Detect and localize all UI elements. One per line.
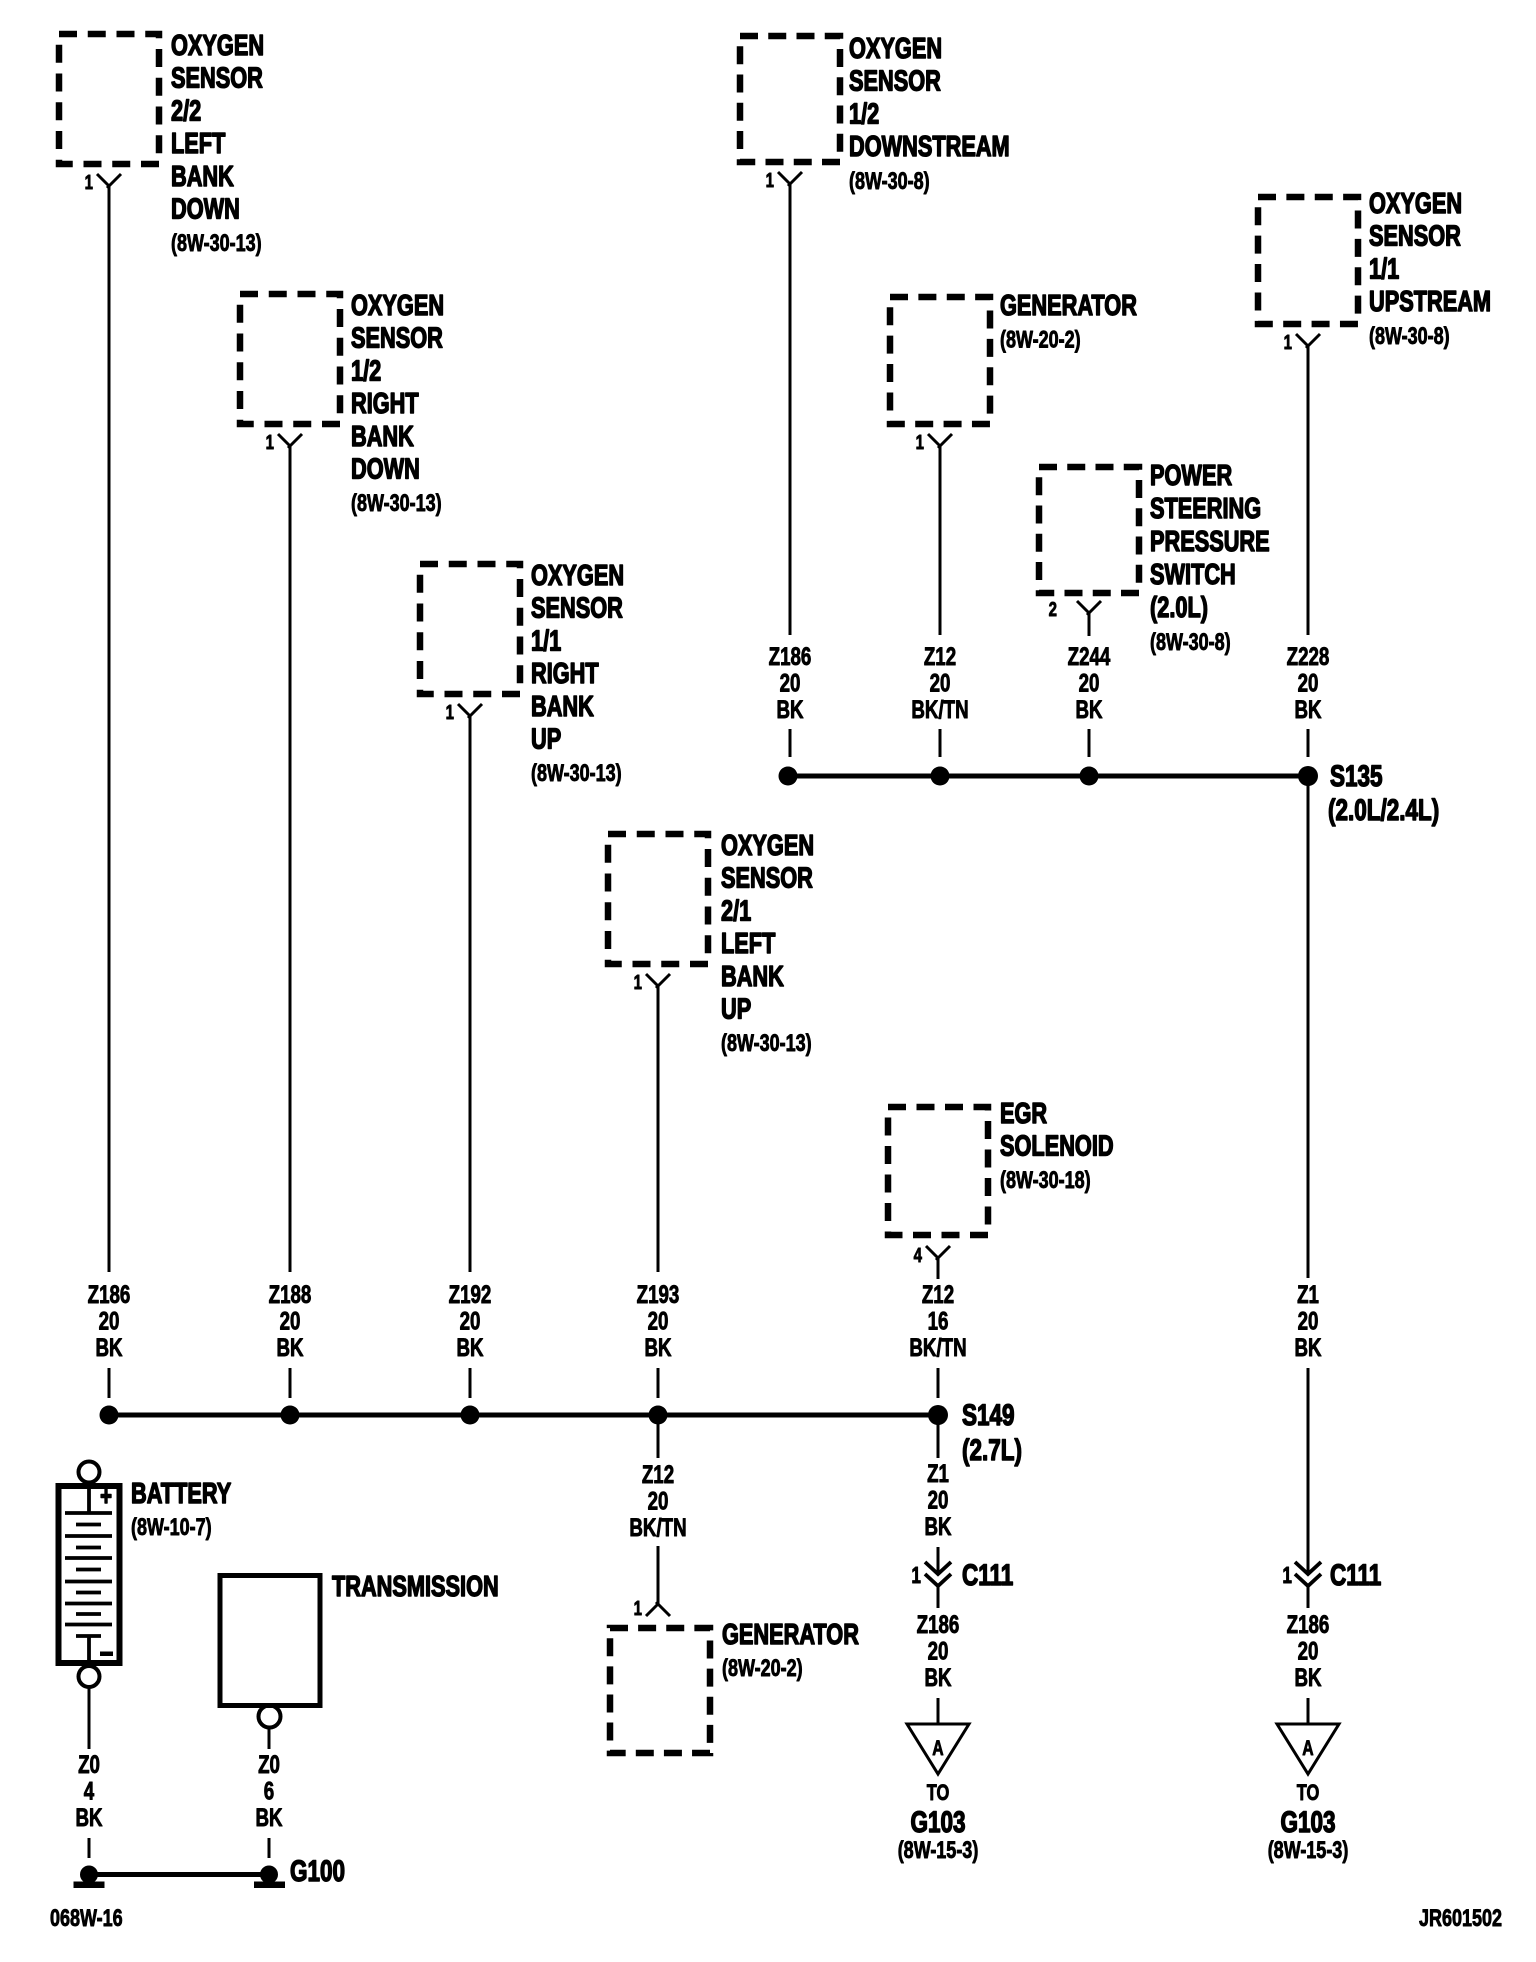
svg-text:(8W-20-2): (8W-20-2) [722, 1656, 803, 1682]
svg-text:RIGHT: RIGHT [531, 658, 599, 690]
svg-text:BK: BK [1294, 695, 1321, 723]
label: POWER STEERING PRESSURE SWITCH (2.0L) [1150, 460, 1270, 656]
svg-text:SENSOR: SENSOR [171, 63, 263, 95]
svg-text:(2.7L): (2.7L) [962, 1433, 1022, 1467]
svg-text:20: 20 [648, 1307, 669, 1335]
svg-text:Z12: Z12 [642, 1460, 674, 1488]
in-line connector C111 (right) [1295, 1562, 1321, 1608]
off-page connector A to G103 (right) [1277, 1724, 1339, 1774]
connector box: EGR SOLENOID [888, 1107, 988, 1235]
svg-text:DOWN: DOWN [351, 454, 420, 486]
svg-text:BK/TN: BK/TN [911, 695, 968, 723]
svg-text:BANK: BANK [351, 421, 414, 453]
label: GENERATOR (top) [1000, 290, 1137, 353]
svg-text:BK: BK [924, 1512, 951, 1540]
svg-text:C111: C111 [1330, 1558, 1381, 1592]
wire label Z0 4 BK (battery ground wire) [75, 1750, 102, 1831]
wire Z1 to C111 (lower segment, right column) [1307, 1368, 1310, 1574]
svg-text:(8W-30-8): (8W-30-8) [1369, 323, 1450, 349]
svg-text:OXYGEN: OXYGEN [721, 830, 814, 862]
junction dot at Z192/S149 [461, 1406, 480, 1425]
wire label Z193 20 BK (left col 4) [637, 1280, 680, 1361]
wire label Z244 20 BK (power steering col) [1068, 642, 1111, 723]
svg-text:TO: TO [927, 1781, 950, 1806]
label: BATTERY [131, 1478, 231, 1541]
svg-text:Z12: Z12 [924, 642, 956, 670]
wire Z186 to A triangle (right) [1307, 1698, 1310, 1724]
svg-text:GENERATOR: GENERATOR [722, 1619, 859, 1651]
svg-text:(8W-30-8): (8W-30-8) [849, 168, 930, 194]
svg-text:BK: BK [95, 1333, 122, 1361]
wire Z192 from O2 1/1 right bank pin 1 (upper segment) [469, 716, 472, 1272]
wire label Z12 20 BK/TN (to bottom generator) [629, 1460, 686, 1541]
svg-text:BK/TN: BK/TN [909, 1333, 966, 1361]
off-page connector A to G103 (left) [907, 1724, 969, 1774]
wire label Z0 6 BK (transmission ground wire) [255, 1750, 282, 1831]
wire Z186 from O2 2/2 pin 1 (upper segment) [108, 186, 111, 1272]
svg-text:Z0: Z0 [258, 1750, 280, 1778]
ground G100 terminal (battery side) [74, 1866, 105, 1889]
wire Z188 from O2 1/2 right bank pin 1 (upper segment) [289, 446, 292, 1272]
svg-text:SENSOR: SENSOR [1369, 221, 1461, 253]
svg-text:LEFT: LEFT [721, 928, 776, 960]
wire Z244 to S135 (stub) [1088, 729, 1091, 757]
svg-text:OXYGEN: OXYGEN [849, 33, 942, 65]
splice S135 dot [1298, 766, 1318, 786]
svg-text:(8W-20-2): (8W-20-2) [1000, 327, 1081, 353]
svg-text:(8W-15-3): (8W-15-3) [1268, 1838, 1349, 1864]
svg-text:BANK: BANK [531, 691, 594, 723]
svg-text:20: 20 [1079, 669, 1100, 697]
svg-text:20: 20 [780, 669, 801, 697]
svg-text:Z186: Z186 [88, 1280, 131, 1308]
wire label Z186 20 BK (downstream col) [769, 642, 812, 723]
svg-text:G103: G103 [910, 1805, 965, 1839]
svg-text:(2.0L/2.4L): (2.0L/2.4L) [1328, 793, 1439, 827]
svg-text:BK: BK [1294, 1333, 1321, 1361]
connector box: OXYGEN SENSOR 2/2 LEFT BANK DOWN [59, 34, 159, 164]
wire Z12 from generator top pin 1 [939, 446, 942, 635]
wire Z12 from S149 (stub) [657, 1415, 660, 1458]
svg-text:(8W-30-13): (8W-30-13) [721, 1031, 812, 1057]
wire Z0 from battery negative [88, 1688, 91, 1749]
svg-text:BK: BK [255, 1803, 282, 1831]
svg-text:G100: G100 [290, 1854, 345, 1888]
svg-text:20: 20 [460, 1307, 481, 1335]
svg-text:BK: BK [1294, 1663, 1321, 1691]
wire Z12 to S135 (stub) [939, 729, 942, 757]
svg-text:20: 20 [928, 1486, 949, 1514]
svg-text:BK: BK [776, 695, 803, 723]
wire Z0 from transmission [268, 1729, 271, 1749]
svg-text:PRESSURE: PRESSURE [1150, 526, 1270, 558]
svg-text:Z186: Z186 [769, 642, 812, 670]
wire label Z1 20 BK (below S149) [924, 1459, 951, 1540]
connector box: POWER STEERING PRESSURE SWITCH [1039, 467, 1139, 593]
svg-text:20: 20 [1298, 669, 1319, 697]
svg-text:(8W-30-18): (8W-30-18) [1000, 1168, 1091, 1194]
svg-text:BK: BK [1075, 695, 1102, 723]
label: OXYGEN SENSOR 2/1 LEFT BANK UP [721, 830, 814, 1057]
ground bus wire to G100 [89, 1872, 269, 1877]
transmission box [220, 1576, 320, 1728]
junction dot at Z188/S149 [281, 1406, 300, 1425]
wire Z1 from S135 (upper segment, right column) [1307, 776, 1310, 1278]
wire Z193 to S149 (lower stub) [657, 1368, 660, 1398]
label: EGR SOLENOID [1000, 1098, 1114, 1194]
label: TO G103 (8W-15-3) right [1268, 1781, 1349, 1864]
svg-text:OXYGEN: OXYGEN [1369, 188, 1462, 220]
svg-text:(8W-15-3): (8W-15-3) [898, 1838, 979, 1864]
wire Z186 to S135 (stub) [789, 729, 792, 757]
wire Z1 from S149 (stub) [937, 1415, 940, 1458]
junction dot at Z193/S149 [649, 1406, 668, 1425]
wire label Z188 20 BK (left col 2) [269, 1280, 312, 1361]
svg-text:1: 1 [634, 1597, 642, 1620]
svg-text:1: 1 [85, 171, 93, 194]
svg-text:1/1: 1/1 [531, 626, 561, 658]
svg-text:6: 6 [264, 1777, 274, 1805]
label: OXYGEN SENSOR 1/1 UPSTREAM [1369, 188, 1491, 349]
svg-text:Z0: Z0 [78, 1750, 100, 1778]
pin 4 arrow (EGR solenoid) [926, 1246, 950, 1260]
svg-text:Z1: Z1 [927, 1459, 949, 1487]
svg-text:(8W-30-13): (8W-30-13) [171, 231, 262, 257]
battery (8W-10-7) symbol [59, 1462, 120, 1688]
wire label Z12 16 BK/TN (EGR col) [909, 1280, 966, 1361]
pin 1 arrow (O2 1/2 downstream) [778, 172, 802, 186]
svg-text:OXYGEN: OXYGEN [171, 30, 264, 62]
svg-text:1: 1 [916, 431, 924, 454]
svg-text:(2.0L): (2.0L) [1150, 592, 1208, 624]
svg-text:BATTERY: BATTERY [131, 1478, 231, 1510]
wire Z186 from O2 1/2 downstream pin 1 [789, 184, 792, 635]
svg-text:1/2: 1/2 [849, 99, 879, 131]
svg-text:20: 20 [930, 669, 951, 697]
wire Z12 to S149 (stub) [937, 1368, 940, 1398]
wire Z228 to S135 (stub) [1307, 729, 1310, 757]
svg-text:20: 20 [1298, 1307, 1319, 1335]
svg-text:(8W-30-13): (8W-30-13) [351, 491, 442, 517]
wire Z0 battery to G100 (stub) [88, 1838, 91, 1858]
label: OXYGEN SENSOR 1/2 DOWNSTREAM [849, 33, 1010, 194]
svg-text:Z186: Z186 [1287, 1610, 1330, 1638]
wire Z12 from EGR pin 4 (stub) [937, 1258, 940, 1279]
svg-text:1: 1 [634, 971, 642, 994]
pin 1 arrow (O2 2/1 left bank up) [646, 974, 670, 988]
in-line connector C111 (left) [925, 1562, 951, 1608]
pin 1 arrow (generator bottom) [646, 1602, 670, 1616]
svg-text:TO: TO [1297, 1781, 1320, 1806]
svg-text:BANK: BANK [171, 161, 234, 193]
svg-text:OXYGEN: OXYGEN [351, 290, 444, 322]
pin 1 arrow (O2 1/1 upstream) [1296, 334, 1320, 348]
svg-text:SENSOR: SENSOR [531, 593, 623, 625]
svg-text:Z12: Z12 [922, 1280, 954, 1308]
svg-text:20: 20 [280, 1307, 301, 1335]
svg-text:Z1: Z1 [1297, 1280, 1319, 1308]
wire label Z186 20 BK (left col 1) [88, 1280, 131, 1361]
wire Z12 to generator bottom pin 1 [657, 1546, 660, 1604]
svg-text:GENERATOR: GENERATOR [1000, 290, 1137, 322]
svg-text:1/1: 1/1 [1369, 254, 1399, 286]
svg-text:SENSOR: SENSOR [849, 66, 941, 98]
svg-text:4: 4 [84, 1777, 95, 1805]
wire label Z186 20 BK (right C111 to G103) [1287, 1610, 1330, 1691]
svg-text:(8W-30-13): (8W-30-13) [531, 761, 622, 787]
wire label Z192 20 BK (left col 3) [449, 1280, 492, 1361]
svg-text:DOWNSTREAM: DOWNSTREAM [849, 131, 1010, 163]
wire Z193 from O2 2/1 left bank pin 1 (upper segment) [657, 986, 660, 1272]
svg-text:BANK: BANK [721, 961, 784, 993]
connector box: OXYGEN SENSOR 1/2 DOWNSTREAM [740, 36, 840, 162]
connector box: OXYGEN SENSOR 2/1 LEFT BANK UP [608, 834, 708, 964]
svg-text:20: 20 [928, 1637, 949, 1665]
pin 1 arrow (O2 2/2 left bank down) [97, 174, 121, 188]
splice bus S135 [788, 774, 1308, 779]
splice S149 dot [928, 1405, 948, 1425]
svg-text:S135: S135 [1330, 759, 1383, 793]
svg-text:20: 20 [648, 1487, 669, 1515]
label: GENERATOR (bottom) [722, 1619, 859, 1682]
svg-text:SOLENOID: SOLENOID [1000, 1131, 1114, 1163]
svg-text:EGR: EGR [1000, 1098, 1047, 1130]
svg-text:Z188: Z188 [269, 1280, 312, 1308]
svg-text:(8W-30-8): (8W-30-8) [1150, 630, 1231, 656]
svg-text:16: 16 [928, 1307, 949, 1335]
svg-text:BK: BK [456, 1333, 483, 1361]
svg-text:BK: BK [644, 1333, 671, 1361]
wire Z186 to S149 (lower stub) [108, 1368, 111, 1398]
svg-text:RIGHT: RIGHT [351, 388, 419, 420]
svg-text:S149: S149 [962, 1398, 1015, 1432]
label: splice S135 (2.0L/2.4L) [1328, 759, 1439, 827]
wire Z244 from power steering switch pin 2 [1088, 613, 1091, 636]
svg-text:STEERING: STEERING [1150, 493, 1261, 525]
connector box: GENERATOR (top) [890, 297, 990, 424]
svg-text:OXYGEN: OXYGEN [531, 560, 624, 592]
pin 1 arrow (generator top) [928, 434, 952, 448]
svg-text:SWITCH: SWITCH [1150, 559, 1236, 591]
pin 1 arrow (O2 1/2 right bank down) [278, 434, 302, 448]
svg-text:1: 1 [766, 169, 774, 192]
wire label Z12 20 BK/TN (generator col) [911, 642, 968, 723]
splice bus S149 [109, 1413, 938, 1418]
svg-text:(8W-10-7): (8W-10-7) [131, 1515, 212, 1541]
svg-text:20: 20 [99, 1307, 120, 1335]
svg-text:JR601502: JR601502 [1419, 1906, 1502, 1932]
svg-text:DOWN: DOWN [171, 194, 240, 226]
pin 1 arrow (O2 1/1 right bank up) [458, 704, 482, 718]
svg-text:SENSOR: SENSOR [721, 863, 813, 895]
wire label Z1 20 BK (right column) [1294, 1280, 1321, 1361]
svg-text:POWER: POWER [1150, 460, 1232, 492]
pin 2 arrow (power steering pressure switch) [1077, 601, 1101, 615]
connector box: OXYGEN SENSOR 1/1 UPSTREAM [1258, 197, 1358, 324]
svg-text:Z193: Z193 [637, 1280, 680, 1308]
label: OXYGEN SENSOR 1/1 RIGHT BANK UP [531, 560, 624, 787]
svg-text:1/2: 1/2 [351, 356, 381, 388]
svg-text:1: 1 [911, 1564, 921, 1589]
svg-text:2/1: 2/1 [721, 896, 751, 928]
svg-text:Z244: Z244 [1068, 642, 1111, 670]
svg-text:BK: BK [924, 1663, 951, 1691]
svg-text:2: 2 [1049, 598, 1057, 621]
svg-text:20: 20 [1298, 1637, 1319, 1665]
svg-text:UPSTREAM: UPSTREAM [1369, 286, 1491, 318]
svg-text:4: 4 [914, 1244, 922, 1267]
svg-text:Z186: Z186 [917, 1610, 960, 1638]
junction dot at Z186/S135 [779, 767, 798, 786]
wire Z1 to C111 (left) [937, 1547, 940, 1574]
svg-text:BK: BK [75, 1803, 102, 1831]
wire Z186 to A triangle (left) [937, 1698, 940, 1724]
svg-text:068W-16: 068W-16 [50, 1906, 123, 1932]
junction dot at Z12/S135 [931, 767, 950, 786]
svg-text:1: 1 [266, 431, 274, 454]
svg-text:SENSOR: SENSOR [351, 323, 443, 355]
wire label Z228 20 BK (upstream col) [1287, 642, 1330, 723]
svg-text:2/2: 2/2 [171, 96, 201, 128]
svg-text:A: A [932, 1736, 943, 1760]
label: TO G103 (8W-15-3) left [898, 1781, 979, 1864]
svg-text:1: 1 [446, 701, 454, 724]
svg-text:A: A [1302, 1736, 1313, 1760]
wire Z0 transmission to G100 (stub) [268, 1838, 271, 1858]
wire Z192 to S149 (lower stub) [469, 1368, 472, 1398]
svg-text:1: 1 [1284, 331, 1292, 354]
connector box: GENERATOR (bottom) [610, 1628, 710, 1753]
label: splice S149 (2.7L) [962, 1398, 1022, 1467]
svg-text:TRANSMISSION: TRANSMISSION [332, 1571, 499, 1603]
svg-text:BK/TN: BK/TN [629, 1513, 686, 1541]
svg-text:UP: UP [721, 994, 751, 1026]
connector box: OXYGEN SENSOR 1/1 RIGHT BANK UP [420, 564, 520, 694]
ground G100 terminal (transmission side) [254, 1866, 285, 1889]
svg-text:BK: BK [276, 1333, 303, 1361]
svg-text:C111: C111 [962, 1558, 1013, 1592]
junction dot at Z186/S149 [100, 1406, 119, 1425]
svg-text:Z228: Z228 [1287, 642, 1330, 670]
label: TRANSMISSION [332, 1571, 499, 1603]
svg-text:1: 1 [1282, 1564, 1292, 1589]
svg-text:UP: UP [531, 724, 561, 756]
label: OXYGEN SENSOR 1/2 RIGHT BANK DOWN [351, 290, 444, 517]
wire label Z186 20 BK (left C111 to G103) [917, 1610, 960, 1691]
connector box: OXYGEN SENSOR 1/2 RIGHT BANK DOWN [240, 294, 340, 424]
svg-text:Z192: Z192 [449, 1280, 492, 1308]
wire Z228 from O2 1/1 upstream pin 1 [1307, 346, 1310, 635]
svg-text:G103: G103 [1280, 1805, 1335, 1839]
svg-text:LEFT: LEFT [171, 128, 226, 160]
junction dot at Z244/S135 [1080, 767, 1099, 786]
label: OXYGEN SENSOR 2/2 LEFT BANK DOWN [171, 30, 264, 257]
wire Z188 to S149 (lower stub) [289, 1368, 292, 1398]
svg-text:+: + [100, 1481, 112, 1512]
